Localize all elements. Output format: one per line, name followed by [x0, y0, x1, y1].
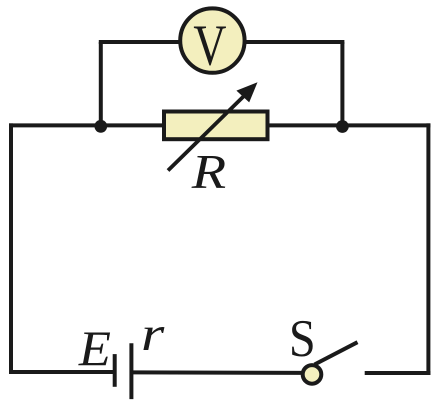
svg-text:R: R	[191, 145, 227, 199]
wire top-left horizontal	[9, 123, 164, 127]
switch S contact circle	[303, 365, 322, 384]
svg-text:S: S	[289, 309, 316, 368]
svg-text:E: E	[78, 321, 111, 377]
voltmeter V meter body	[180, 8, 244, 72]
wire battery to switch	[133, 370, 302, 375]
rheostat arrow head	[236, 82, 257, 102]
wire voltmeter branch top-left horizontal	[99, 40, 182, 44]
node junction left	[94, 120, 107, 133]
resistor R (rheostat box)	[164, 112, 268, 140]
wire bottom-right horizontal	[365, 371, 431, 375]
rheostat arrow shaft	[168, 93, 247, 171]
switch lever	[315, 342, 358, 364]
svg-text:r: r	[141, 306, 165, 361]
wire voltmeter branch right vertical	[340, 42, 344, 127]
svg-text:V: V	[193, 13, 226, 77]
battery long plate	[129, 343, 133, 399]
wire left vertical	[9, 123, 13, 374]
wire right vertical	[426, 123, 430, 375]
node junction right	[336, 120, 349, 133]
wire top-right horizontal	[268, 123, 431, 127]
wire voltmeter branch left vertical	[99, 42, 103, 126]
wire bottom-left horizontal	[9, 370, 113, 374]
wire voltmeter branch top-right horizontal	[243, 40, 344, 44]
battery short plate	[113, 354, 117, 387]
